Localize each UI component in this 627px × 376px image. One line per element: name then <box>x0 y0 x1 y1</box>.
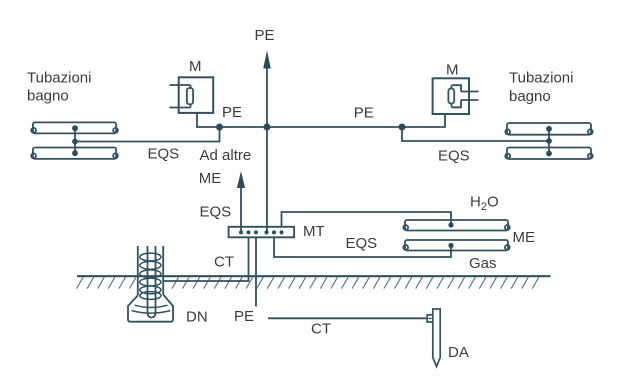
svg-text:Tubazioni: Tubazioni <box>509 70 573 87</box>
svg-text:M: M <box>189 58 202 75</box>
svg-text:PE: PE <box>255 27 275 44</box>
svg-text:PE: PE <box>354 105 374 122</box>
svg-text:DN: DN <box>186 309 208 326</box>
svg-text:CT: CT <box>214 254 234 271</box>
svg-text:ME: ME <box>199 170 222 187</box>
svg-text:bagno: bagno <box>509 88 551 105</box>
svg-text:bagno: bagno <box>27 88 69 105</box>
svg-text:PE: PE <box>222 104 242 121</box>
svg-text:Ad altre: Ad altre <box>200 147 252 164</box>
svg-text:Gas: Gas <box>469 255 497 272</box>
svg-text:CT: CT <box>311 321 331 338</box>
svg-text:MT: MT <box>303 223 325 240</box>
svg-text:M: M <box>446 62 459 79</box>
svg-text:EQS: EQS <box>148 146 180 163</box>
svg-text:Tubazioni: Tubazioni <box>27 69 91 86</box>
svg-text:DA: DA <box>448 344 469 361</box>
svg-text:PE: PE <box>234 308 254 325</box>
svg-text:EQS: EQS <box>438 148 470 165</box>
svg-text:EQS: EQS <box>200 204 232 221</box>
svg-text:EQS: EQS <box>346 235 378 252</box>
svg-text:ME: ME <box>513 229 536 246</box>
